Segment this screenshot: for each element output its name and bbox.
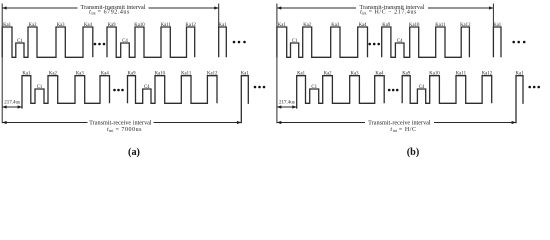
svg-text:Ka12: Ka12: [482, 71, 493, 76]
svg-text:tint = H/C: tint = H/C: [390, 127, 416, 133]
(b) left frame extension line: [276, 4, 278, 124]
(b) bottom dimension left arrowhead: [277, 121, 281, 124]
(b) bottom dimension line left segment: [277, 122, 365, 124]
(a) bottom waveform segment 1: pulses Ka1, C1, Ka2, Ka3, Ka4: [22, 76, 110, 109]
svg-text:tint = 6792.4us: tint = 6792.4us: [89, 10, 130, 16]
svg-text:Ka3: Ka3: [351, 71, 360, 76]
(a) top dimension line right segment: [149, 7, 219, 9]
svg-text:Transmit-receive interval: Transmit-receive interval: [368, 119, 431, 126]
svg-text:Ka2: Ka2: [29, 23, 38, 28]
svg-text:C1: C1: [17, 39, 23, 44]
svg-text:Ka1: Ka1: [297, 71, 306, 76]
svg-text:Ka9: Ka9: [402, 71, 411, 76]
svg-text:tint = 7000us: tint = 7000us: [107, 127, 142, 133]
(a) top waveform segment 2: pulses Ka9, C4, Ka10, Ka11, Ka12: [107, 27, 195, 57]
(b) bottom waveform next-frame pulse Ka1 (left edge extends to dimension line): [516, 76, 523, 124]
(a) top dimension right extension line: [218, 4, 220, 28]
(a) top dimension line left segment: [2, 7, 77, 9]
svg-text:Ka11: Ka11: [181, 71, 192, 76]
(b) top waveform trailing ellipsis dots: [512, 41, 525, 44]
svg-text:Ka4: Ka4: [359, 23, 368, 28]
svg-text:Ka1: Ka1: [22, 71, 31, 76]
(a) bottom dimension right arrowhead: [237, 121, 241, 124]
(a) top waveform trailing ellipsis dots: [233, 41, 246, 44]
svg-text:Ka2: Ka2: [49, 71, 58, 76]
(b) delay dimension right arrowhead: [292, 105, 296, 108]
svg-text:(b): (b): [407, 147, 419, 158]
(b) bottom dimension right arrowhead: [512, 121, 516, 124]
(b) top waveform next-frame pulse Ka1: [493, 27, 501, 57]
(b) top dimension right arrowhead: [489, 6, 493, 9]
svg-text:Ka1: Ka1: [516, 71, 525, 76]
svg-text:Ka10: Ka10: [429, 71, 440, 76]
(b) top waveform segment 2: pulses Ka9, C4, Ka10, Ka11, Ka12: [382, 27, 470, 57]
svg-text:Ka9: Ka9: [128, 71, 137, 76]
svg-text:217.4us: 217.4us: [279, 101, 295, 106]
(b) bottom waveform segment 2: pulses Ka9, C4, Ka10, Ka11, Ka12: [402, 76, 492, 104]
(a) bottom waveform segment 2: pulses Ka9, C4, Ka10, Ka11, Ka12: [128, 76, 218, 104]
(a) bottom waveform next-frame pulse Ka1 (left edge extends to dimension line): [241, 76, 248, 124]
svg-text:C1: C1: [37, 85, 43, 90]
(b) top dimension line right segment: [428, 7, 493, 9]
svg-text:Ka1: Ka1: [493, 23, 502, 28]
svg-text:(a): (a): [128, 147, 140, 158]
(b) top waveform ellipsis dots (between Ka4 and Ka9): [368, 43, 380, 46]
(a) bottom waveform ellipsis dots (between Ka4 and Ka9): [113, 89, 124, 92]
(a) top waveform next-frame pulse Ka1: [219, 27, 227, 57]
(a) top waveform ellipsis dots (between Ka4 and Ka9): [94, 43, 106, 46]
(a) bottom waveform trailing ellipsis dots: [254, 86, 266, 89]
(a) top waveform segment 1: pulses Ka1, C1, Ka2, Ka3, Ka4: [2, 27, 93, 57]
svg-text:C4: C4: [419, 85, 425, 90]
svg-text:Ka11: Ka11: [161, 23, 172, 28]
svg-text:Ka11: Ka11: [435, 23, 446, 28]
(b) top dimension line left segment: [277, 7, 356, 9]
svg-text:Ka2: Ka2: [303, 23, 312, 28]
svg-text:Ka10: Ka10: [134, 23, 145, 28]
(a) bottom dimension line right segment: [154, 122, 242, 124]
svg-text:Ka4: Ka4: [375, 71, 384, 76]
svg-text:Ka1: Ka1: [241, 71, 250, 76]
(a) top dimension right arrowhead: [214, 6, 218, 9]
(b) bottom waveform segment 1: pulses Ka1, C1, Ka2, Ka3, Ka4: [297, 76, 385, 109]
svg-text:Ka11: Ka11: [456, 71, 467, 76]
svg-text:Ka4: Ka4: [84, 23, 93, 28]
svg-text:Ka1: Ka1: [278, 23, 287, 28]
svg-text:217.4us: 217.4us: [4, 101, 20, 106]
svg-text:Ka12: Ka12: [185, 23, 196, 28]
(b) bottom dimension line right segment: [434, 122, 516, 124]
(b) top waveform segment 1: pulses Ka1, C1, Ka2, Ka3, Ka4: [277, 27, 368, 57]
(b) bottom waveform ellipsis dots (between Ka4 and Ka9): [388, 89, 399, 92]
svg-text:C1: C1: [292, 39, 298, 44]
(a) top dimension left arrowhead: [2, 6, 6, 9]
svg-text:Ka10: Ka10: [155, 71, 166, 76]
svg-text:Ka3: Ka3: [76, 71, 85, 76]
svg-text:Ka12: Ka12: [207, 71, 218, 76]
svg-text:Ka4: Ka4: [101, 71, 110, 76]
svg-text:Ka2: Ka2: [324, 71, 333, 76]
(a) left frame extension line: [1, 4, 3, 124]
(b) top dimension right extension line: [492, 4, 494, 28]
svg-text:C4: C4: [122, 39, 128, 44]
svg-text:tint = H/C − 217.4us: tint = H/C − 217.4us: [360, 10, 417, 16]
svg-text:Ka1: Ka1: [3, 23, 12, 28]
(b) bottom waveform trailing ellipsis dots: [528, 86, 540, 89]
(b) delay dimension line 217.4us: [277, 106, 297, 108]
svg-text:Ka1: Ka1: [219, 23, 228, 28]
(a) delay dimension line 217.4us: [2, 106, 22, 108]
(b) top dimension left arrowhead: [277, 6, 281, 9]
(b) delay dimension left arrowhead: [277, 105, 281, 108]
(a) bottom dimension left arrowhead: [2, 121, 6, 124]
svg-text:Ka3: Ka3: [331, 23, 340, 28]
svg-text:Ka12: Ka12: [460, 23, 471, 28]
svg-text:Transmit-receive interval: Transmit-receive interval: [89, 119, 152, 126]
(a) delay dimension right arrowhead: [18, 105, 22, 108]
(a) bottom dimension line left segment: [2, 122, 87, 124]
svg-text:C4: C4: [397, 39, 403, 44]
svg-text:Ka10: Ka10: [409, 23, 420, 28]
svg-text:Ka9: Ka9: [108, 23, 117, 28]
svg-text:Ka3: Ka3: [57, 23, 66, 28]
svg-text:C4: C4: [144, 85, 150, 90]
svg-text:C1: C1: [311, 85, 317, 90]
(a) delay dimension left arrowhead: [2, 105, 6, 108]
svg-text:Ka9: Ka9: [382, 23, 391, 28]
